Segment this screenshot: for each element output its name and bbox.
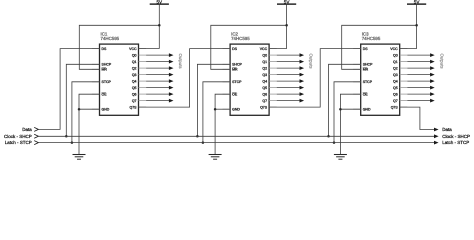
wire Q3 output arrow IC3 bbox=[407, 73, 434, 77]
IC2 pin label MR (overline) bbox=[232, 68, 237, 72]
wire STCP of IC3 to latch bus bbox=[334, 82, 361, 143]
IC1 pin Q1 stub bbox=[139, 61, 147, 63]
IC2 pin GND stub bbox=[223, 108, 231, 110]
IC3 pin Q0 stub bbox=[400, 54, 408, 56]
wire Q6 output arrow IC2 bbox=[277, 92, 304, 96]
wire Q0 output arrow IC2 bbox=[277, 53, 304, 57]
IC1 pin label Q1 bbox=[132, 60, 137, 64]
IC3 pin Q6 stub bbox=[400, 93, 408, 95]
IC3 pin DS stub bbox=[353, 48, 361, 50]
IC2 pin Q2 stub bbox=[269, 67, 277, 69]
power +5V symbol above IC2 bbox=[277, 0, 296, 5]
IC2 pin label Q4 bbox=[262, 80, 267, 84]
IC3 pin Q1 stub bbox=[400, 61, 408, 63]
wire Q6 output arrow IC1 bbox=[146, 92, 173, 96]
IC1 pin Q2 stub bbox=[139, 67, 147, 69]
svg-text:VCC: VCC bbox=[129, 47, 136, 51]
IC3 pin MR stub bbox=[353, 68, 361, 70]
IC3 pin label Q3 bbox=[393, 73, 398, 77]
svg-text:Q7S: Q7S bbox=[391, 106, 398, 110]
IC1 pin Q0 stub bbox=[139, 54, 147, 56]
IC1 pin label Q7S bbox=[129, 106, 136, 110]
svg-text:Q6: Q6 bbox=[262, 93, 267, 97]
wire Q0 output arrow IC3 bbox=[407, 53, 434, 57]
IC1 pin GND stub bbox=[92, 108, 100, 110]
svg-text:Q7S: Q7S bbox=[129, 106, 136, 110]
svg-text:OE: OE bbox=[363, 93, 368, 97]
wire Q5 output arrow IC3 bbox=[407, 86, 434, 90]
IC3 pin VCC stub bbox=[400, 48, 408, 50]
wire STCP of IC1 to latch bus bbox=[72, 82, 100, 143]
wire 5V bar down to VCC of IC1 bbox=[139, 4, 160, 49]
IC3 pin label Q7 bbox=[393, 99, 398, 103]
svg-text:Latch - STCP: Latch - STCP bbox=[442, 140, 469, 145]
IC2 pin label Q2 bbox=[262, 67, 267, 71]
svg-text:Q3: Q3 bbox=[393, 73, 398, 77]
IC2 part number label 74HC595 bbox=[231, 36, 250, 41]
IC1 pin STCP stub bbox=[92, 81, 100, 83]
IC U2 74HC595 body bbox=[230, 44, 269, 115]
IC3 pin label MR (overline) bbox=[363, 68, 368, 72]
node junction SHCP IC2 on clock bus bbox=[196, 135, 199, 138]
power +5V symbol above IC1 bbox=[150, 0, 169, 5]
net label output Data bbox=[442, 127, 452, 132]
IC3 pin label OE (overline) bbox=[363, 93, 368, 97]
IC2 pin STCP stub bbox=[223, 81, 231, 83]
svg-text:Outputs: Outputs bbox=[178, 54, 183, 69]
IC2 pin Q0 stub bbox=[269, 54, 277, 56]
IC3 pin label Q6 bbox=[393, 93, 398, 97]
wire Q5 output arrow IC2 bbox=[277, 86, 304, 90]
svg-text:SHCP: SHCP bbox=[102, 63, 112, 67]
svg-text:Outputs: Outputs bbox=[439, 54, 444, 69]
IC2 pin Q7S stub bbox=[269, 106, 277, 108]
IC3 pin label Q7S bbox=[391, 106, 398, 110]
IC3 pin label Q0 bbox=[393, 54, 398, 58]
IC3 pin label VCC bbox=[390, 47, 397, 51]
net label input Latch - STCP bbox=[5, 140, 39, 145]
wire Q2 output arrow IC3 bbox=[407, 66, 434, 70]
svg-text:74HC595: 74HC595 bbox=[101, 36, 120, 41]
wire Q6 output arrow IC3 bbox=[407, 92, 434, 96]
IC2 pin label Q3 bbox=[262, 73, 267, 77]
ground symbol below IC3 bbox=[334, 155, 347, 160]
svg-text:Q6: Q6 bbox=[132, 93, 137, 97]
IC3 pin OE stub bbox=[353, 93, 361, 95]
node junction SHCP IC1 on clock bus bbox=[65, 135, 68, 138]
wire Q4 output arrow IC1 bbox=[146, 79, 173, 83]
svg-text:Q3: Q3 bbox=[132, 73, 137, 77]
svg-text:Q4: Q4 bbox=[132, 80, 137, 84]
IC3 reference designator label bbox=[362, 31, 369, 36]
IC2 pin label DS bbox=[232, 47, 237, 51]
IC3 pin Q5 stub bbox=[400, 87, 408, 89]
svg-text:DS: DS bbox=[232, 47, 237, 51]
svg-text:Q2: Q2 bbox=[393, 67, 398, 71]
svg-text:74HC595: 74HC595 bbox=[231, 36, 250, 41]
wire OE of IC1 down to ground bbox=[79, 94, 100, 154]
wire OE of IC3 down to ground bbox=[340, 94, 360, 154]
wire Data input to IC1 DS bbox=[38, 49, 99, 130]
svg-text:Q1: Q1 bbox=[393, 60, 398, 64]
IC1 pin label Q3 bbox=[132, 73, 137, 77]
IC1 pin label Q6 bbox=[132, 93, 137, 97]
IC2 pin label VCC bbox=[260, 47, 267, 51]
svg-text:MR: MR bbox=[232, 68, 237, 72]
svg-text:STCP: STCP bbox=[102, 81, 112, 85]
svg-text:Q1: Q1 bbox=[132, 60, 137, 64]
node junction STCP IC1 on latch bus bbox=[71, 141, 74, 144]
wire Q1 output arrow IC2 bbox=[277, 60, 304, 64]
IC1 pin label Q5 bbox=[132, 86, 137, 90]
net label Outputs IC2 (vertical) bbox=[309, 54, 314, 69]
svg-text:Q4: Q4 bbox=[262, 80, 267, 84]
node junction 5V rail IC3 bbox=[415, 24, 418, 27]
svg-text:Q2: Q2 bbox=[262, 67, 267, 71]
IC2 pin Q1 stub bbox=[269, 61, 277, 63]
wire latch bus bbox=[38, 142, 434, 144]
node junction 5V rail IC2 bbox=[285, 24, 288, 27]
IC1 pin label MR (overline) bbox=[102, 68, 107, 72]
IC1 pin DS stub bbox=[92, 48, 100, 50]
svg-text:Q2: Q2 bbox=[132, 67, 137, 71]
wire Q3 output arrow IC2 bbox=[277, 73, 304, 77]
node junction SHCP IC3 on clock bus bbox=[327, 135, 330, 138]
IC2 pin label Q6 bbox=[262, 93, 267, 97]
IC1 pin label Q2 bbox=[132, 67, 137, 71]
svg-text:Q3: Q3 bbox=[262, 73, 267, 77]
wire Q7 output arrow IC1 bbox=[146, 99, 173, 103]
IC2 pin DS stub bbox=[223, 48, 231, 50]
IC2 pin label Q1 bbox=[262, 60, 267, 64]
IC2 pin label Q7 bbox=[262, 99, 267, 103]
wire 5V rail to MR of IC1 bbox=[79, 25, 159, 69]
IC1 part number label 74HC595 bbox=[101, 36, 120, 41]
wire IC3 Q7S to Data output bbox=[400, 107, 439, 131]
IC2 pin OE stub bbox=[223, 93, 231, 95]
IC U3 74HC595 body bbox=[361, 44, 400, 115]
svg-text:GND: GND bbox=[102, 108, 110, 112]
IC3 pin label SHCP bbox=[363, 63, 373, 67]
wire SHCP of IC1 to clock bus bbox=[66, 64, 99, 136]
IC1 pin label Q4 bbox=[132, 80, 137, 84]
IC1 pin SHCP stub bbox=[92, 63, 100, 65]
wire OE of IC2 down to ground bbox=[215, 94, 230, 154]
IC1 pin label OE (overline) bbox=[102, 93, 107, 97]
IC3 pin Q7S stub bbox=[400, 106, 408, 108]
svg-text:Q5: Q5 bbox=[262, 86, 267, 90]
wire Q7 output arrow IC2 bbox=[277, 99, 304, 103]
wire Q0 output arrow IC1 bbox=[146, 53, 173, 57]
IC2 pin label Q7S bbox=[260, 106, 267, 110]
svg-text:DS: DS bbox=[102, 47, 107, 51]
svg-text:Q7S: Q7S bbox=[260, 106, 267, 110]
node junction 5V rail IC1 bbox=[158, 24, 161, 27]
svg-text:VCC: VCC bbox=[390, 47, 397, 51]
wire Q1 output arrow IC3 bbox=[407, 60, 434, 64]
IC3 pin label STCP bbox=[363, 81, 373, 85]
IC2 pin label SHCP bbox=[232, 63, 242, 67]
svg-text:Q0: Q0 bbox=[132, 54, 137, 58]
wire IC1 Q7S to IC2 DS bbox=[139, 49, 231, 108]
wire 5V rail to MR of IC3 bbox=[342, 25, 417, 69]
wire 5V bar down to VCC of IC3 bbox=[400, 4, 417, 49]
net label Outputs IC3 (vertical) bbox=[439, 54, 444, 69]
IC3 pin Q4 stub bbox=[400, 80, 408, 82]
IC2 pin label Q0 bbox=[262, 54, 267, 58]
wire STCP of IC2 to latch bus bbox=[203, 82, 230, 143]
svg-text:SHCP: SHCP bbox=[232, 63, 242, 67]
IC3 pin label GND bbox=[363, 108, 371, 112]
wire Q4 output arrow IC3 bbox=[407, 79, 434, 83]
IC3 pin STCP stub bbox=[353, 81, 361, 83]
svg-text:STCP: STCP bbox=[232, 81, 242, 85]
IC1 pin Q6 stub bbox=[139, 93, 147, 95]
wire GND of IC3 to ground drop bbox=[340, 108, 360, 110]
IC1 pin label STCP bbox=[102, 81, 112, 85]
IC1 pin label VCC bbox=[129, 47, 136, 51]
power +5V symbol above IC3 bbox=[407, 0, 426, 5]
node junction STCP IC2 on latch bus bbox=[202, 141, 205, 144]
wire clock bus bbox=[38, 135, 434, 137]
svg-text:Q5: Q5 bbox=[132, 86, 137, 90]
IC1 pin label Q0 bbox=[132, 54, 137, 58]
wire SHCP of IC3 to clock bus bbox=[329, 64, 361, 136]
IC1 pin label DS bbox=[102, 47, 107, 51]
IC3 part number label 74HC595 bbox=[362, 36, 381, 41]
svg-text:VCC: VCC bbox=[260, 47, 267, 51]
svg-text:GND: GND bbox=[363, 108, 371, 112]
wire Q1 output arrow IC1 bbox=[146, 60, 173, 64]
node junction OE/GND IC3 bbox=[339, 108, 342, 111]
svg-text:Outputs: Outputs bbox=[309, 54, 314, 69]
IC1 pin Q5 stub bbox=[139, 87, 147, 89]
IC2 pin Q6 stub bbox=[269, 93, 277, 95]
IC1 pin label GND bbox=[102, 108, 110, 112]
clock bus output arrow bbox=[434, 134, 439, 138]
IC1 pin label SHCP bbox=[102, 63, 112, 67]
svg-text:Data: Data bbox=[442, 127, 452, 132]
latch bus output arrow bbox=[434, 141, 439, 145]
svg-text:OE: OE bbox=[232, 93, 237, 97]
svg-text:Q7: Q7 bbox=[393, 99, 398, 103]
wire Q7 output arrow IC3 bbox=[407, 99, 434, 103]
wire Q2 output arrow IC2 bbox=[277, 66, 304, 70]
net label output Clock - SHCP bbox=[442, 134, 470, 139]
svg-text:Q4: Q4 bbox=[393, 80, 398, 84]
IC2 pin Q3 stub bbox=[269, 74, 277, 76]
IC1 reference designator label bbox=[101, 31, 108, 36]
net label Outputs IC1 (vertical) bbox=[178, 54, 183, 69]
svg-text:GND: GND bbox=[232, 108, 240, 112]
svg-text:Q5: Q5 bbox=[393, 86, 398, 90]
svg-text:Clock - SHCP: Clock - SHCP bbox=[4, 134, 32, 139]
wire Q2 output arrow IC1 bbox=[146, 66, 173, 70]
svg-text:Latch - STCP: Latch - STCP bbox=[5, 140, 32, 145]
IC1 pin Q7 stub bbox=[139, 100, 147, 102]
IC3 pin Q7 stub bbox=[400, 100, 408, 102]
IC2 pin Q5 stub bbox=[269, 87, 277, 89]
IC1 pin VCC stub bbox=[139, 48, 147, 50]
IC2 pin Q7 stub bbox=[269, 100, 277, 102]
ground symbol below IC2 bbox=[209, 155, 222, 160]
IC U1 74HC595 body bbox=[100, 44, 139, 115]
IC2 pin label OE (overline) bbox=[232, 93, 237, 97]
IC2 pin label Q5 bbox=[262, 86, 267, 90]
wire GND of IC1 to ground drop bbox=[79, 108, 100, 110]
IC3 pin Q3 stub bbox=[400, 74, 408, 76]
node junction OE/GND IC1 bbox=[78, 108, 81, 111]
net label input Clock - SHCP bbox=[4, 134, 38, 139]
IC3 pin label DS bbox=[363, 47, 368, 51]
svg-text:74HC595: 74HC595 bbox=[362, 36, 381, 41]
wire Q3 output arrow IC1 bbox=[146, 73, 173, 77]
IC3 pin label Q1 bbox=[393, 60, 398, 64]
svg-text:MR: MR bbox=[102, 68, 107, 72]
svg-text:Q7: Q7 bbox=[262, 99, 267, 103]
svg-text:MR: MR bbox=[363, 68, 368, 72]
IC3 pin SHCP stub bbox=[353, 63, 361, 65]
IC1 pin label Q7 bbox=[132, 99, 137, 103]
svg-text:Q7: Q7 bbox=[132, 99, 137, 103]
wire GND of IC2 to ground drop bbox=[215, 108, 230, 110]
wire 5V bar down to VCC of IC2 bbox=[269, 4, 287, 49]
IC2 pin Q4 stub bbox=[269, 80, 277, 82]
ground symbol below IC1 bbox=[73, 155, 86, 160]
IC3 pin GND stub bbox=[353, 108, 361, 110]
IC3 pin label Q2 bbox=[393, 67, 398, 71]
IC2 reference designator label bbox=[231, 31, 238, 36]
svg-text:Q0: Q0 bbox=[262, 54, 267, 58]
IC3 pin Q2 stub bbox=[400, 67, 408, 69]
net label input Data bbox=[22, 127, 38, 132]
node junction OE/GND IC2 bbox=[214, 108, 217, 111]
node junction STCP IC3 on latch bus bbox=[333, 141, 336, 144]
IC3 pin label Q4 bbox=[393, 80, 398, 84]
net label output Latch - STCP bbox=[442, 140, 469, 145]
svg-text:Q1: Q1 bbox=[262, 60, 267, 64]
svg-text:STCP: STCP bbox=[363, 81, 373, 85]
wire IC2 Q7S to IC3 DS bbox=[269, 49, 361, 108]
wire Q4 output arrow IC2 bbox=[277, 79, 304, 83]
IC2 pin VCC stub bbox=[269, 48, 277, 50]
svg-text:Clock - SHCP: Clock - SHCP bbox=[442, 134, 470, 139]
wire 5V rail to MR of IC2 bbox=[211, 25, 287, 69]
IC1 pin Q4 stub bbox=[139, 80, 147, 82]
IC3 pin label Q5 bbox=[393, 86, 398, 90]
IC2 pin MR stub bbox=[223, 68, 231, 70]
IC2 pin SHCP stub bbox=[223, 63, 231, 65]
svg-text:SHCP: SHCP bbox=[363, 63, 373, 67]
IC1 pin Q7S stub bbox=[139, 106, 147, 108]
IC2 pin label STCP bbox=[232, 81, 242, 85]
svg-text:Q0: Q0 bbox=[393, 54, 398, 58]
IC1 pin OE stub bbox=[92, 93, 100, 95]
svg-text:Data: Data bbox=[22, 127, 32, 132]
wire SHCP of IC2 to clock bus bbox=[197, 64, 230, 136]
IC1 pin MR stub bbox=[92, 68, 100, 70]
svg-text:DS: DS bbox=[363, 47, 368, 51]
IC2 pin label GND bbox=[232, 108, 240, 112]
IC1 pin Q3 stub bbox=[139, 74, 147, 76]
wire Q5 output arrow IC1 bbox=[146, 86, 173, 90]
svg-text:Q6: Q6 bbox=[393, 93, 398, 97]
svg-text:OE: OE bbox=[102, 93, 107, 97]
